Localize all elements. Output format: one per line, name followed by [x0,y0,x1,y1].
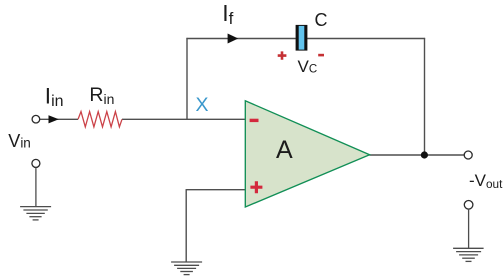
capacitor polarity plus mark [278,51,287,59]
op-amp U1 triangle [245,101,369,207]
current arrow If [228,34,239,44]
inverting input minus mark [250,119,259,122]
capacitor polarity minus mark [318,54,324,57]
wire: feedback right vertical down to output node [424,38,426,155]
wire: capacitor to right vertical [307,38,425,40]
wire: feedback left vertical (node X down to input wire) [186,38,188,119]
wire: feedback top horizontal to capacitor [186,38,295,40]
terminal: Vin reference [32,159,40,167]
capacitor C plates [296,25,308,51]
ground (middle, non-inverting input) [171,262,202,275]
resistor Rin [78,112,122,127]
terminal: Vout reference [464,201,473,210]
ground (right, under output reference) [453,209,484,261]
ground (left, under Vin) [20,168,51,220]
wire: op-amp output to terminal [369,154,464,156]
svg-text:X: X [196,94,209,116]
wire: resistor to inverting input of op-amp [122,118,245,120]
terminal: Vout output [464,151,472,159]
current arrow Iin [49,115,59,123]
terminal: Vin input [32,115,40,123]
junction dot at output node [421,151,428,158]
svg-text:A: A [276,136,293,164]
svg-text:C: C [315,10,328,30]
non-inverting input plus mark [250,181,262,193]
wire: input wire from Vin terminal to resistor [40,118,78,120]
wire: non-inverting input horizontal [186,189,245,191]
wire: non-inverting input vertical to ground [185,189,187,262]
